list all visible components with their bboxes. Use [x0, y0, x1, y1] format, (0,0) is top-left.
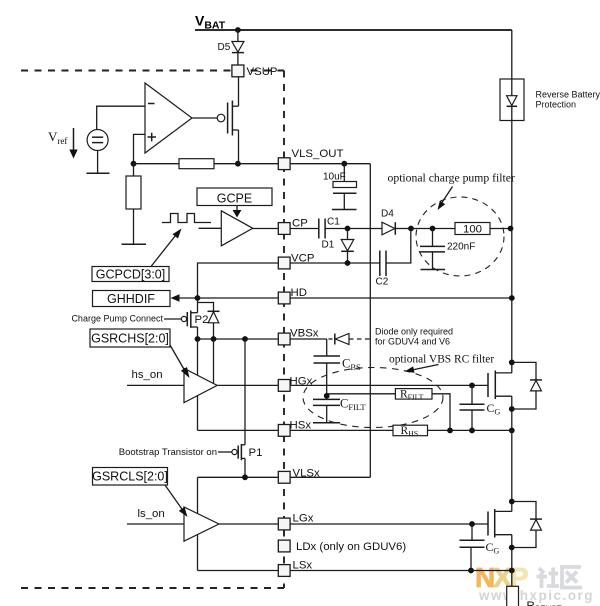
wire vertical VBSx to HSx: [197, 339, 199, 430]
op-amp U1: [145, 83, 192, 153]
pin HGx: [278, 380, 290, 392]
block GCPCD: [92, 267, 169, 282]
transistor M-sup (PMOS pass): [192, 117, 217, 119]
resistor 100: [455, 223, 490, 235]
wire VLS vertical rail: [369, 164, 371, 478]
wire CP input: [199, 227, 222, 229]
wire: [134, 163, 180, 165]
svg-text:VSUP: VSUP: [247, 66, 278, 78]
resistor R-div: [133, 164, 135, 176]
svg-text:220nF: 220nF: [447, 242, 475, 253]
diode body LS: [512, 502, 536, 519]
svg-text:VLSx: VLSx: [293, 467, 321, 479]
svg-text:VLS_OUT: VLS_OUT: [292, 148, 344, 160]
diode DZ (P2 parallel): [198, 303, 214, 312]
pin LGx: [278, 518, 290, 530]
ground: [122, 243, 147, 245]
diode body HS: [512, 362, 536, 379]
node VBAT rail: [195, 29, 512, 31]
svg-text:Reverse Battery: Reverse Battery: [536, 90, 600, 100]
block GHHDIF arrow: [171, 294, 180, 302]
transistor Q-LS (external NMOS): [511, 430, 513, 501]
capacitor CBS: [326, 339, 328, 356]
svg-text:for GDUV4 and V6: for GDUV4 and V6: [375, 337, 450, 347]
ellipse VBS RC filter: [303, 368, 443, 428]
pin VBSx: [278, 333, 290, 345]
svg-text:HSx: HSx: [290, 420, 312, 432]
Vref arrow: [73, 128, 75, 150]
capacitor 220nF: [432, 229, 434, 247]
IC dashed boundary: [21, 71, 284, 589]
pin HD: [278, 292, 290, 304]
source Vref: [87, 130, 108, 151]
wire VBSx row: [198, 338, 279, 340]
transistor P2: [164, 318, 181, 320]
svg-text:C2: C2: [376, 277, 389, 288]
capacitor C1: [318, 219, 320, 239]
ellipse charge pump filter: [416, 197, 504, 276]
resistor R-shunt: [511, 571, 513, 588]
resistor RHS: [393, 425, 428, 436]
wire VCP row: [198, 263, 279, 313]
buffer CP driver: [221, 211, 253, 246]
right rail: [511, 30, 513, 79]
svg-text:D4: D4: [381, 209, 394, 220]
wire VBSx to P1: [244, 339, 246, 445]
wire CP external: [290, 228, 318, 230]
watermark: [475, 562, 594, 603]
diode D1: [347, 229, 349, 240]
buffer ls_on driver: [127, 523, 184, 525]
svg-text:C1: C1: [327, 217, 340, 228]
svg-text:P2: P2: [195, 314, 209, 326]
transistor P1: [218, 451, 232, 453]
arrow GSRCLS: [165, 485, 184, 512]
svg-text:optional VBS RC filter: optional VBS RC filter: [389, 354, 494, 366]
svg-text:10uF: 10uF: [323, 172, 346, 183]
resistor R-fb: [179, 159, 214, 169]
svg-text:Charge Pump Connect: Charge Pump Connect: [71, 314, 163, 324]
wire VLSx row: [198, 476, 279, 478]
arrow to filter: [441, 187, 453, 205]
pin VSUP: [232, 65, 244, 77]
svg-text:Bootstrap Transistor on: Bootstrap Transistor on: [119, 447, 217, 458]
wire: [237, 30, 239, 42]
svg-text:LGx: LGx: [293, 513, 314, 525]
arrow GCPCD: [151, 233, 178, 267]
node VLS_OUT wire: [290, 163, 370, 165]
wire VLSx to LSx (behind buffer): [197, 477, 199, 570]
svg-text:GSRCHS[2:0]: GSRCHS[2:0]: [91, 332, 169, 346]
capacitor C2: [379, 251, 381, 277]
svg-text:www.hxpic.org: www.hxpic.org: [478, 588, 594, 603]
svg-text:GCPCD[3:0]: GCPCD[3:0]: [96, 268, 165, 282]
svg-text:LDx (only on GDUV6): LDx (only on GDUV6): [296, 541, 406, 553]
wire LSx row: [198, 570, 279, 572]
capacitor CFILT: [313, 398, 340, 400]
svg-text:HD: HD: [291, 287, 307, 299]
wire HSx row: [198, 429, 279, 431]
node filter junction: [324, 393, 330, 399]
svg-text:optional charge pump filter: optional charge pump filter: [388, 172, 515, 185]
wire HGx row: [217, 384, 278, 386]
svg-text:HGx: HGx: [290, 375, 313, 387]
block GSRCLS: [93, 468, 168, 486]
reverse battery protection U-RBP: [500, 79, 524, 121]
ground: [87, 172, 110, 174]
pin LSx: [278, 565, 290, 577]
block GSRCHS: [90, 329, 170, 347]
svg-text:Protection: Protection: [536, 100, 577, 110]
capacitor CG high side: [471, 385, 473, 403]
svg-text:GSRCLS[2:0]: GSRCLS[2:0]: [92, 470, 168, 484]
wire: [214, 163, 278, 165]
wire buffer supply: [213, 339, 215, 384]
diode D5: [232, 42, 244, 53]
svg-text:CP: CP: [292, 218, 308, 230]
svg-text:GHHDIF: GHHDIF: [107, 292, 155, 306]
svg-text:LSx: LSx: [293, 560, 313, 572]
svg-text:D5: D5: [218, 42, 231, 53]
svg-text:D1: D1: [322, 240, 335, 251]
transistor Q-HS (external NMOS): [487, 373, 489, 397]
svg-text:GCPE: GCPE: [217, 192, 252, 206]
arrow GSRCHS: [170, 345, 185, 371]
arrow to RC filter: [412, 365, 439, 371]
wire LGx row: [219, 523, 278, 525]
wire opamp plus input: [134, 134, 146, 163]
svg-text:VCP: VCP: [291, 253, 314, 265]
block GHHDIF: [93, 291, 171, 307]
svg-text:ls_on: ls_on: [138, 508, 165, 520]
svg-text:P1: P1: [249, 447, 263, 459]
svg-text:100: 100: [463, 223, 482, 235]
svg-text:VBSx: VBSx: [290, 328, 319, 340]
diode D-BS (dashed optional): [329, 338, 335, 340]
pin HSx: [278, 425, 290, 437]
capacitor C-10uF: [343, 164, 345, 182]
pin VLSx: [278, 471, 290, 483]
block GCPE: [197, 188, 272, 206]
buffer hs_on driver: [127, 384, 184, 386]
svg-text:hs_on: hs_on: [132, 369, 163, 381]
resistor RFILT: [327, 393, 396, 395]
pulse symbol: [162, 214, 211, 223]
wire HD row external: [290, 297, 512, 299]
capacitor CG low side: [471, 524, 473, 540]
pin VCP: [278, 257, 290, 269]
pin VLS_OUT: [278, 158, 290, 170]
wire opamp minus input: [97, 106, 145, 129]
wire CP output: [253, 228, 278, 230]
pin LDx: [278, 540, 290, 552]
svg-text:Diode only required: Diode only required: [375, 327, 453, 337]
node A junction: [131, 161, 137, 167]
diode D4: [382, 222, 395, 235]
pin CP: [278, 223, 290, 235]
